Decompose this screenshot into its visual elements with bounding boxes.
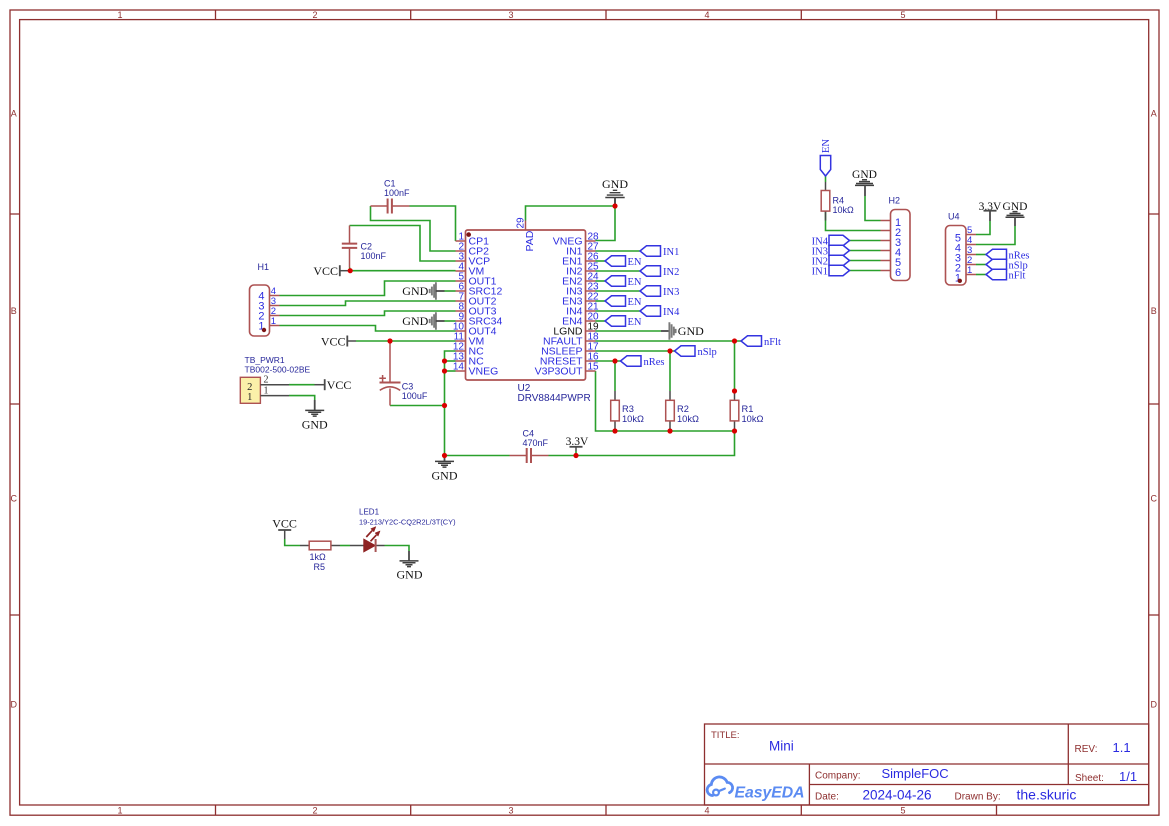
net flag nFlt (U4.1) xyxy=(986,269,1007,279)
svg-text:29: 29 xyxy=(516,217,527,229)
wire VCP (C2 top to pin3) xyxy=(350,226,456,262)
svg-text:2: 2 xyxy=(312,10,317,20)
capacitor C4 xyxy=(510,429,549,464)
wire IN3 flag to H2 pin4 xyxy=(850,250,881,252)
capacitor C3 polarized xyxy=(379,341,428,406)
svg-text:GND: GND xyxy=(602,177,628,191)
junction C3 bottom xyxy=(442,403,447,408)
U2 right pin names xyxy=(535,236,583,378)
net flag IN2 (pin25) xyxy=(640,266,661,276)
svg-text:2024-04-26: 2024-04-26 xyxy=(863,788,932,803)
junction nSlp/R2 xyxy=(667,348,672,353)
wire IN2 flag to H2 pin5 xyxy=(850,260,881,262)
power flag VCC (pin11) xyxy=(321,334,356,348)
wire pin27 IN1 xyxy=(596,250,641,252)
svg-text:the.skuric: the.skuric xyxy=(1017,787,1077,803)
svg-text:TB_PWR1: TB_PWR1 xyxy=(245,355,285,365)
EasyEDA logo xyxy=(707,777,804,802)
junction pin13 rail xyxy=(442,358,447,363)
svg-text:IN1: IN1 xyxy=(663,247,679,258)
svg-text:1.1: 1.1 xyxy=(1113,740,1131,755)
wire VCC to pin11 VM xyxy=(356,340,456,342)
wire pin23 IN3 xyxy=(596,290,641,292)
wire pin24 EN2 xyxy=(596,280,606,282)
wire pin25 IN2 xyxy=(596,270,641,272)
net flag nRes (U4.3) xyxy=(986,249,1007,259)
junction 3.3V rail xyxy=(573,453,578,458)
svg-text:1: 1 xyxy=(117,806,122,816)
svg-text:D: D xyxy=(1151,700,1158,710)
junction R2 bottom xyxy=(667,428,672,433)
svg-text:VCC: VCC xyxy=(313,264,338,278)
wire H1.1 to pin10 OUT4 xyxy=(280,326,456,332)
svg-text:470nF: 470nF xyxy=(523,438,549,448)
U2 right pin stubs 28-15 xyxy=(586,241,596,371)
svg-text:C3: C3 xyxy=(402,382,414,392)
svg-text:VCC: VCC xyxy=(321,334,346,348)
connector H2 xyxy=(881,196,911,281)
U2 left pin names xyxy=(469,236,503,378)
ground GND (C3 rail bottom-left) xyxy=(432,456,458,483)
power flag VCC (pin4) xyxy=(313,264,350,278)
power flag 3.3V (C4 rail) xyxy=(566,436,589,451)
net flag nSlp (pin17) xyxy=(675,346,696,356)
svg-text:B: B xyxy=(11,306,17,316)
junction nFlt/R1 xyxy=(732,338,737,343)
svg-text:10kΩ: 10kΩ xyxy=(742,414,764,424)
junction C3 top xyxy=(387,338,392,343)
svg-text:REV:: REV: xyxy=(1075,744,1098,755)
wire GND to pin9 SRC34 xyxy=(445,320,456,322)
net flag IN4 (H2.3, pointing right) xyxy=(829,235,850,245)
svg-text:A: A xyxy=(1151,109,1157,119)
IC U2 DRV8844PWPR body xyxy=(453,217,599,404)
svg-text:4: 4 xyxy=(704,10,709,20)
svg-text:EN: EN xyxy=(628,257,642,268)
wire 3.3V stub xyxy=(575,451,577,456)
svg-text:C2: C2 xyxy=(361,242,373,252)
svg-text:1kΩ: 1kΩ xyxy=(310,552,327,562)
svg-text:EN: EN xyxy=(628,317,642,328)
U2 left pin numbers xyxy=(453,232,465,373)
svg-text:1/1: 1/1 xyxy=(1119,769,1137,784)
svg-text:2: 2 xyxy=(264,375,269,386)
power flag VCC (LED) xyxy=(272,517,297,540)
wire TB_PWR1 pin2 to VCC xyxy=(289,384,315,386)
wire C3 bottom to rail xyxy=(390,405,445,407)
svg-text:C: C xyxy=(1151,494,1158,504)
connector H1 xyxy=(250,262,280,336)
wire pin22 EN3 xyxy=(596,300,606,302)
net flag nRes (pin16) xyxy=(621,356,642,366)
resistor R2 xyxy=(666,391,699,431)
wire GND down to pin28 VNEG xyxy=(596,206,616,241)
power flag 3.3V (U4) xyxy=(979,201,1002,221)
svg-text:10kΩ: 10kΩ xyxy=(622,414,644,424)
resistor R5 xyxy=(300,541,340,572)
svg-text:H1: H1 xyxy=(258,262,270,272)
resistor R3 xyxy=(611,391,644,431)
net flag IN1 (H2.6, pointing right) xyxy=(829,265,850,275)
svg-text:TB002-500-02BE: TB002-500-02BE xyxy=(245,365,311,375)
svg-text:2: 2 xyxy=(312,806,317,816)
wire VCC to R5 xyxy=(285,539,300,546)
svg-text:1: 1 xyxy=(271,316,276,327)
svg-text:B: B xyxy=(1151,306,1157,316)
svg-text:14: 14 xyxy=(453,362,465,373)
svg-text:TITLE:: TITLE: xyxy=(711,730,740,741)
svg-text:R2: R2 xyxy=(677,404,689,414)
net flag EN (pin22) xyxy=(605,296,626,306)
U2 right pin numbers xyxy=(588,232,600,373)
svg-text:EN: EN xyxy=(821,139,832,153)
wire TB_PWR1 pin1 to GND xyxy=(289,396,315,400)
wire U4 pin1 to nFlt xyxy=(976,274,986,276)
svg-text:1: 1 xyxy=(967,265,972,276)
svg-text:GND: GND xyxy=(402,284,428,298)
svg-text:Date:: Date: xyxy=(815,792,839,803)
ground GND (pin6 SRC12, sideways) xyxy=(402,282,444,299)
junction R3 bottom xyxy=(612,428,617,433)
svg-text:5: 5 xyxy=(900,10,905,20)
svg-text:U4: U4 xyxy=(948,212,960,222)
LED LED1 xyxy=(350,508,456,553)
resistor R1 xyxy=(730,391,763,431)
wire U4 pin2 to nSlp xyxy=(976,264,986,266)
junction R1 top xyxy=(732,388,737,393)
svg-text:nSlp: nSlp xyxy=(698,347,717,358)
svg-text:3: 3 xyxy=(508,10,513,20)
net flag IN3 (pin23) xyxy=(640,286,661,296)
svg-text:1: 1 xyxy=(117,10,122,20)
junction GND rail corner xyxy=(442,453,447,458)
svg-text:GND: GND xyxy=(402,314,428,328)
junction VCC/C2/pin4 xyxy=(348,268,353,273)
svg-text:10kΩ: 10kΩ xyxy=(833,205,855,215)
svg-text:A: A xyxy=(11,109,17,119)
ground GND (TB_PWR1) xyxy=(302,400,328,432)
svg-text:GND: GND xyxy=(432,469,458,483)
svg-text:19-213/Y2C-CQ2R2L/3T(CY): 19-213/Y2C-CQ2R2L/3T(CY) xyxy=(359,518,456,527)
wire pins 12-13-14 rail to GND xyxy=(445,351,456,456)
wire GND to H2 pin1 xyxy=(865,196,881,221)
wire LED1 to GND xyxy=(385,546,410,552)
svg-text:R5: R5 xyxy=(314,562,326,572)
svg-text:IN4: IN4 xyxy=(663,307,680,318)
wire pin18 NFAULT to nFlt and R1 xyxy=(596,340,742,342)
U2 pin1 marker xyxy=(466,232,471,237)
svg-text:Sheet:: Sheet: xyxy=(1075,773,1104,784)
svg-text:6: 6 xyxy=(895,267,901,279)
TITLE BLOCK xyxy=(705,724,1149,805)
svg-text:C1: C1 xyxy=(384,179,396,189)
svg-text:3: 3 xyxy=(508,806,513,816)
svg-text:Mini: Mini xyxy=(769,739,794,754)
svg-text:VCC: VCC xyxy=(272,517,297,531)
svg-text:15: 15 xyxy=(588,362,600,373)
ground GND (top, pin28 net) xyxy=(602,177,628,206)
wire U4 pin3 to nRes xyxy=(976,254,986,256)
ground GND (H2) xyxy=(852,169,877,196)
svg-text:4: 4 xyxy=(704,806,709,816)
wire H1.2 to pin8 OUT3 xyxy=(280,311,456,316)
wire pin16 NRESET to nRes and R3 xyxy=(596,360,621,362)
svg-text:IN2: IN2 xyxy=(663,267,679,278)
net flag EN (pin26) xyxy=(605,256,626,266)
svg-text:DRV8844PWPR: DRV8844PWPR xyxy=(518,393,591,404)
svg-text:C: C xyxy=(11,494,18,504)
wire pin19 LGND to GND xyxy=(596,330,662,332)
ground GND (LED1) xyxy=(397,551,423,582)
svg-text:C4: C4 xyxy=(523,429,535,439)
capacitor C1 xyxy=(371,179,411,214)
U2 top pin 29 stub xyxy=(525,221,527,231)
ground GND (pin19 LGND, sideways) xyxy=(661,322,704,339)
svg-text:GND: GND xyxy=(397,568,423,582)
junction pin14 rail xyxy=(442,368,447,373)
wire IN4 flag to H2 pin3 xyxy=(850,240,881,242)
wire R4 bottom to H2 pin2 xyxy=(826,211,881,231)
svg-text:VNEG: VNEG xyxy=(469,366,499,378)
svg-text:VCC: VCC xyxy=(327,378,352,392)
wire EN flag to R4 top xyxy=(825,176,827,182)
net flag EN (pin20) xyxy=(605,316,626,326)
svg-text:PAD: PAD xyxy=(524,230,536,251)
connector TB_PWR1 xyxy=(240,355,310,403)
wire pin17 NSLEEP to nSlp and R2 xyxy=(596,350,675,352)
junction R1 bottom xyxy=(732,428,737,433)
net flag EN (R4 top, pointing down) xyxy=(820,156,830,177)
svg-text:GND: GND xyxy=(678,324,704,338)
svg-text:IN3: IN3 xyxy=(663,287,679,298)
svg-text:EN: EN xyxy=(628,297,642,308)
wire 3.3V to U4 pin5 xyxy=(976,221,990,235)
ground GND (pin9 SRC34, sideways) xyxy=(402,312,444,329)
svg-text:nRes: nRes xyxy=(644,357,665,368)
svg-text:100nF: 100nF xyxy=(361,251,387,261)
resistor R4 xyxy=(821,182,854,221)
wire H1.3 to pin7 OUT2 xyxy=(280,301,456,306)
wire pin20 EN4 xyxy=(596,320,606,322)
wire VCC to pin4 VM xyxy=(350,270,455,272)
net flag IN4 (pin21) xyxy=(640,306,661,316)
ground GND (U4) xyxy=(1003,201,1028,226)
junction PAD/GND xyxy=(612,203,617,208)
capacitor C2 xyxy=(342,226,387,271)
wire GND to pin6 SRC12 xyxy=(445,290,456,292)
svg-text:R4: R4 xyxy=(833,196,845,206)
wire pin15 V3P3OUT to resistor rail xyxy=(596,371,735,431)
svg-text:nFlt: nFlt xyxy=(1009,270,1026,281)
U2 left pin stubs 1-14 xyxy=(456,221,596,372)
wire H1.4 to pin5 OUT1 xyxy=(280,281,456,296)
wire pin21 IN4 xyxy=(596,310,641,312)
svg-text:SimpleFOC: SimpleFOC xyxy=(882,766,949,781)
svg-text:1: 1 xyxy=(247,392,252,403)
connector U4 xyxy=(946,212,977,286)
svg-text:5: 5 xyxy=(900,806,905,816)
wire pin26 EN1 xyxy=(596,260,606,262)
net flag IN2 (H2.5, pointing right) xyxy=(829,255,850,265)
wire GND to U4 pin4 xyxy=(976,226,1015,245)
svg-text:R3: R3 xyxy=(622,404,634,414)
svg-text:100nF: 100nF xyxy=(384,188,410,198)
svg-text:EasyEDA: EasyEDA xyxy=(735,785,805,802)
wire IN1 flag to H2 pin6 xyxy=(850,270,881,272)
svg-text:D: D xyxy=(11,700,18,710)
svg-text:10kΩ: 10kΩ xyxy=(677,414,699,424)
svg-text:1: 1 xyxy=(264,385,269,396)
net flag IN3 (H2.4, pointing right) xyxy=(829,245,850,255)
power flag VCC (TB_PWR1) xyxy=(315,378,352,392)
svg-text:IN1: IN1 xyxy=(812,266,828,277)
net flag IN1 (pin27) xyxy=(640,246,661,256)
wire R5 to LED1 xyxy=(340,545,350,547)
svg-text:H2: H2 xyxy=(889,196,901,206)
svg-text:R1: R1 xyxy=(742,404,754,414)
wire PAD pin29 to GND xyxy=(526,206,616,221)
svg-text:100uF: 100uF xyxy=(402,391,428,401)
svg-text:V3P3OUT: V3P3OUT xyxy=(535,366,583,378)
wire CP1 top (C1 right to pin1) xyxy=(280,176,1016,551)
net flag nSlp (U4.2) xyxy=(986,259,1007,269)
junction nRes/R3 xyxy=(612,358,617,363)
svg-text:LED1: LED1 xyxy=(359,508,380,517)
wire bottom rail GND-C4-3.3V-R1 xyxy=(445,455,510,457)
svg-text:Company:: Company: xyxy=(815,771,861,782)
svg-text:Drawn By:: Drawn By: xyxy=(955,792,1001,803)
net flag nFlt (pin18) xyxy=(741,336,762,346)
svg-text:nFlt: nFlt xyxy=(764,337,781,348)
wire CP2 (C1 left to pin2) xyxy=(371,206,456,251)
svg-text:GND: GND xyxy=(302,418,328,432)
net flag EN (pin24) xyxy=(605,276,626,286)
svg-text:EN: EN xyxy=(628,277,642,288)
